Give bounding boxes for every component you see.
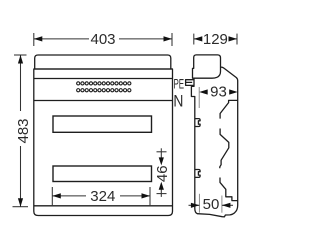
base strip line [34, 205, 173, 207]
DIN rail clip upper [195, 119, 200, 127]
interior device recess profile lower [220, 178, 238, 201]
svg-text:324: 324 [90, 188, 115, 205]
lid seam line [34, 68, 173, 70]
window cutout row 1 [53, 116, 152, 132]
PE terminal clamp tab [186, 80, 194, 86]
svg-text:403: 403 [90, 31, 115, 48]
svg-text:PE: PE [174, 77, 185, 92]
svg-text:93: 93 [210, 83, 227, 100]
svg-text:N: N [173, 93, 183, 111]
louver band bottom line [34, 100, 173, 102]
enclosure body (front view) [34, 69, 173, 216]
svg-text:129: 129 [203, 31, 228, 48]
enclosure lid (front view top) [35, 55, 171, 69]
louver band top line [34, 78, 173, 80]
interior device recess profile middle [220, 129, 229, 169]
side view body outline [191, 67, 237, 217]
ventilation holes row 1 [77, 82, 131, 85]
side view lid profile [193, 55, 221, 78]
DIN rail clip lower [195, 170, 200, 178]
svg-text:483: 483 [15, 118, 32, 143]
ventilation holes row 2 [77, 89, 131, 92]
svg-text:50: 50 [203, 196, 220, 213]
window cutout row 2 [53, 166, 152, 182]
extension line for 93/50 left [198, 87, 200, 108]
svg-text:46: 46 [154, 165, 171, 182]
interior device recess profile upper [220, 100, 238, 118]
